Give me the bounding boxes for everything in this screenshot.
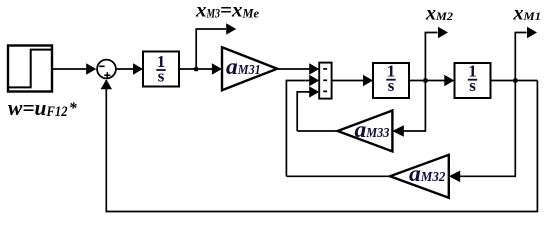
svg-text:s: s: [158, 66, 165, 85]
arrowhead xM2 output: [438, 27, 448, 38]
wire: summing block to integrator 2: [332, 80, 365, 82]
wire: summing circle to integrator 1: [117, 68, 134, 70]
integrator block 1/s #2: [373, 62, 409, 99]
gain aM31: [222, 47, 277, 90]
wire: step block to summing circle: [52, 68, 88, 70]
step source block W: [8, 46, 53, 92]
summing block S2 (three minus inputs): [319, 63, 331, 99]
arrowhead into gain aM33: [392, 125, 403, 137]
node: junction after integrator 2: [424, 79, 428, 83]
wire: gain aM32 output to left: [286, 175, 390, 177]
wire: integrator 3 output to right: [491, 80, 538, 82]
wire: integrator 1 to gain aM31: [179, 68, 213, 70]
integrator block 1/s #1: [143, 52, 179, 87]
arrowhead into integrator 2: [363, 75, 373, 86]
wire: branch up to xM1 output: [515, 33, 526, 80]
wire: branch down to gain aM33 input: [403, 82, 425, 132]
arrowhead into summing circle bottom: [101, 79, 112, 89]
gain aM32: [390, 155, 449, 198]
wire: gain aM33 output to left: [297, 130, 337, 132]
wire: feedback aM32 into summing block middle input: [286, 81, 310, 177]
node: junction after integrator 1: [194, 67, 198, 71]
wire: outer feedback loop from integrator 3 output to summing circle: [106, 80, 537, 212]
integrator block 1/s #3: [455, 62, 491, 99]
arrowhead into summing block top input: [309, 63, 319, 74]
arrowhead into gain aM31: [212, 63, 222, 74]
arrowhead into gain aM32: [449, 171, 460, 183]
arrowhead into integrator 3: [444, 75, 454, 86]
arrowhead into integrator 1: [133, 63, 143, 74]
arrowhead into summing circle: [86, 63, 96, 74]
svg-text:s: s: [469, 76, 476, 95]
svg-text:s: s: [388, 76, 395, 95]
wire: branch down to gain aM32 input: [460, 82, 516, 177]
wire: gain aM31 to summing block: [277, 68, 310, 70]
node: junction after integrator 3: [513, 79, 517, 83]
arrowhead xM3 output: [226, 23, 236, 34]
gain aM33: [338, 111, 393, 152]
wire: branch up to xM2 output: [425, 33, 437, 80]
arrowhead into summing block bottom input: [309, 86, 319, 97]
wire: integrator 2 to integrator 3: [409, 80, 446, 82]
summing junction S1: [97, 60, 116, 79]
arrowhead xM1 output: [527, 27, 537, 38]
wire: branch up to xM3 output: [196, 29, 226, 68]
wire: feedback aM33 into summing block bottom input: [297, 92, 310, 131]
arrowhead into summing block middle input: [309, 75, 319, 86]
